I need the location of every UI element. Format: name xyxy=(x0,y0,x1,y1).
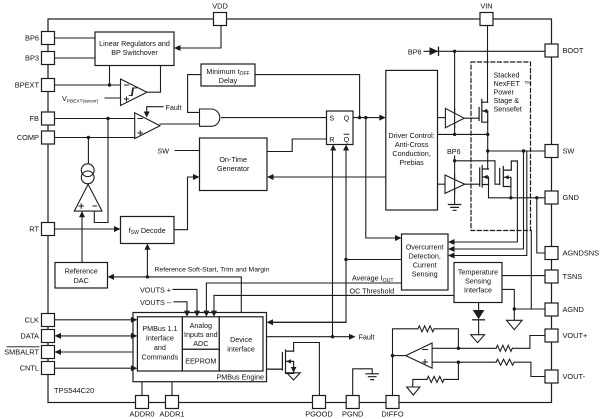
wire average iout line xyxy=(206,283,401,317)
amp input markers xyxy=(79,85,428,365)
overline SMBALRT xyxy=(7,346,39,348)
wire fault vertical to latch xyxy=(332,148,334,337)
chip border TPS544C20 xyxy=(48,19,552,403)
wire feedback resistor path xyxy=(393,329,459,356)
arrow sense2 into overcurrent xyxy=(448,246,455,252)
wire qbar branch to overcurrent left xyxy=(346,259,402,261)
svg-text:Interface: Interface xyxy=(464,286,492,295)
svg-text:Q: Q xyxy=(344,135,350,144)
wire COMP tap down to current source xyxy=(87,138,89,164)
svg-text:BP3: BP3 xyxy=(25,54,39,63)
wire fsw decode to on-time generator xyxy=(174,177,194,230)
marker plus gm amp xyxy=(79,204,84,209)
svg-text:SMBALRT: SMBALRT xyxy=(4,348,39,357)
svg-text:TSNS: TSNS xyxy=(563,272,583,281)
wire addr1 stub xyxy=(171,382,173,396)
svg-text:BP6: BP6 xyxy=(408,47,422,56)
svg-text:PMBus Engine: PMBus Engine xyxy=(216,373,264,382)
svg-text:R: R xyxy=(329,135,334,144)
svg-text:Interface: Interface xyxy=(146,334,174,343)
block EEPROM xyxy=(182,349,219,371)
pin SMBALRT xyxy=(42,346,55,359)
svg-text:PGND: PGND xyxy=(342,410,363,419)
arrow into latch Qbar bottom xyxy=(343,145,349,151)
wire driver swnode line xyxy=(438,133,488,135)
svg-text:Fault: Fault xyxy=(359,333,375,342)
svg-text:VIN: VIN xyxy=(480,2,492,11)
pin VOUT+ xyxy=(545,329,558,342)
wire qbar vertical latch to pmbus elbow xyxy=(271,148,346,323)
marker minus gm amp xyxy=(93,205,97,207)
wire addr0 stub xyxy=(141,382,143,396)
wire fault label to error amp xyxy=(147,107,163,112)
gate AND xyxy=(200,109,220,126)
block On-Time Generator xyxy=(200,138,268,191)
pin COMP xyxy=(42,131,55,144)
svg-text:VOUT+: VOUT+ xyxy=(563,331,588,340)
svg-text:TPS544C20: TPS544C20 xyxy=(54,386,94,395)
pin AGND xyxy=(545,303,558,316)
wire gain resistor path to ground xyxy=(413,362,459,387)
svg-text:ADDR1: ADDR1 xyxy=(159,410,184,419)
block fsw Decode xyxy=(121,217,175,244)
wire diffo pin to opamp out xyxy=(392,356,394,396)
mosfet high-side nexfet xyxy=(464,99,488,122)
svg-text:BP Switchover: BP Switchover xyxy=(111,48,158,57)
svg-text:Analog: Analog xyxy=(190,321,212,330)
arrow into reference dac xyxy=(108,274,115,280)
svg-text:VOUT-: VOUT- xyxy=(563,372,586,381)
wire temp diode to ground xyxy=(478,320,480,335)
svg-text:ADC: ADC xyxy=(193,339,208,348)
op-amp error amplifier xyxy=(135,113,160,139)
pin GND xyxy=(545,191,558,204)
wire Vpbext label to comparator xyxy=(105,97,121,99)
wire vout+ line after resistor xyxy=(513,336,546,349)
svg-text:COMP: COMP xyxy=(17,133,39,142)
svg-text:CNTL: CNTL xyxy=(20,364,39,373)
arrow Q into driver control xyxy=(379,115,386,121)
resistor R vout+ xyxy=(496,345,512,351)
svg-text:Prebias: Prebias xyxy=(399,158,424,167)
wire BP6 diode line to BOOT xyxy=(424,50,545,52)
arrow clk into pmbus xyxy=(131,317,138,323)
wire temp box elbow to agnd line xyxy=(502,289,514,309)
pin DIFFO xyxy=(386,396,399,409)
block Linear Regulators and BP Switchover xyxy=(95,32,174,66)
svg-text:and: and xyxy=(154,343,166,352)
block PMBus Engine outer xyxy=(133,313,267,382)
wire BP3 pin to linreg xyxy=(55,57,96,59)
svg-text:PMBus 1.1: PMBus 1.1 xyxy=(142,324,177,333)
wire high-side source down to SW node xyxy=(487,122,489,169)
arrow vouts minus into adc xyxy=(184,311,190,317)
arrow vouts plus into adc xyxy=(194,311,200,317)
svg-text:Device: Device xyxy=(230,335,252,344)
wire fault out line from pmbus xyxy=(267,336,350,338)
wire fsw decode bottom to reference line xyxy=(146,248,148,277)
svg-text:VPBEXT(swovr): VPBEXT(swovr) xyxy=(62,94,99,104)
svg-text:AGND: AGND xyxy=(563,305,584,314)
block Minimum tOFF Delay xyxy=(201,64,255,86)
arrow into latch R bottom xyxy=(330,145,336,151)
wire agndsns from gnd line xyxy=(537,198,545,253)
wire vouts plus line xyxy=(173,289,197,313)
current source symbol xyxy=(81,164,94,184)
wire cntl line xyxy=(55,367,135,369)
svg-text:DATA: DATA xyxy=(20,331,39,340)
ground bar-style below BP6 low stem xyxy=(448,205,460,211)
ground triangle below pgood fet xyxy=(287,373,301,380)
svg-text:BP6: BP6 xyxy=(447,147,461,156)
diode temperature sense xyxy=(473,310,485,320)
dashed box Stacked NexFET power stage xyxy=(471,62,531,231)
wire sense line 3 to overcurrent xyxy=(452,152,527,256)
svg-text:Anti-Cross: Anti-Cross xyxy=(395,140,429,149)
pin BOOT xyxy=(545,44,558,57)
svg-text:Commands: Commands xyxy=(142,353,179,362)
pin DATA xyxy=(42,330,55,343)
arrow fsw elbow into on-time generator xyxy=(193,174,200,180)
wire driver control feedback to on-time xyxy=(271,176,386,178)
wire bp6 to sensefet gate xyxy=(455,161,500,184)
buffer low-side driver xyxy=(445,175,465,193)
pin SW xyxy=(545,145,558,158)
wire on-time out to latch R xyxy=(267,139,327,152)
wire oc threshold line xyxy=(214,295,455,316)
wire FB vertical down to gm amp minus xyxy=(94,119,108,223)
svg-text:ADDR0: ADDR0 xyxy=(129,410,154,419)
block Device interface xyxy=(219,317,263,371)
svg-text:VDD: VDD xyxy=(212,2,228,11)
svg-text:Reference Soft-Start, Trim and: Reference Soft-Start, Trim and Margin xyxy=(155,267,270,274)
arrow fault into error amp xyxy=(144,112,150,118)
pin TSNS xyxy=(545,270,558,283)
svg-text:Linear Regulators and: Linear Regulators and xyxy=(99,39,170,48)
wire RT pin to fsw decode xyxy=(55,228,118,230)
svg-text:Delay: Delay xyxy=(219,76,238,85)
block Temperature Sensing Interface xyxy=(454,263,502,303)
wires group xyxy=(55,26,546,396)
resistor R gain to ground xyxy=(427,376,444,382)
pin RT xyxy=(42,223,55,236)
svg-text:BPEXT: BPEXT xyxy=(15,81,40,90)
svg-text:AGNDSNS: AGNDSNS xyxy=(563,249,600,258)
svg-text:Current: Current xyxy=(413,261,437,270)
wire AND output to latch S xyxy=(222,117,327,119)
ground triangle at opamp resistor xyxy=(407,387,420,395)
arrow smbalrt into pin xyxy=(55,349,62,355)
latch SR xyxy=(327,111,354,145)
svg-text:BOOT: BOOT xyxy=(563,46,584,55)
arrowheads xyxy=(55,45,455,373)
arrow cntl into pmbus xyxy=(131,365,138,371)
arrow RT into fsw decode xyxy=(114,226,121,232)
wire min toff delay output elbow to AND xyxy=(188,75,201,113)
resistor R vout- xyxy=(496,359,514,365)
wire agnd line to AGND pin xyxy=(514,308,545,310)
svg-text:Fault: Fault xyxy=(166,103,182,112)
comparator BPEXT swovr xyxy=(121,79,148,106)
wire BP6 pin to linreg xyxy=(55,37,96,39)
wire opamp output to feedback node xyxy=(393,355,406,357)
pin ADDR0 xyxy=(136,396,149,409)
arrow pgood fet source into ground xyxy=(291,367,297,373)
svg-text:Inputs and: Inputs and xyxy=(184,330,218,339)
pin PGND xyxy=(346,396,359,409)
wire vouts minus line xyxy=(174,302,187,313)
wire temp box to TSNS pin xyxy=(502,275,545,277)
wire low-side buffer input xyxy=(438,183,446,185)
arrow data into pin xyxy=(55,333,62,339)
wire min toff input from Q line xyxy=(255,75,360,118)
wire reference soft-start line xyxy=(112,277,242,313)
svg-text:DIFFO: DIFFO xyxy=(381,410,403,419)
svg-text:VOUTS +: VOUTS + xyxy=(140,286,171,295)
wire reference dac up to gm amp plus xyxy=(81,214,83,263)
arrow into linreg from vdd xyxy=(174,45,181,51)
svg-text:Detection,: Detection, xyxy=(409,252,441,261)
block Reference DAC xyxy=(55,263,108,289)
wire low-side fet1 source to gnd line xyxy=(488,185,490,198)
wire pgood fet gate from pmbus xyxy=(267,368,283,370)
pin ADDR1 xyxy=(166,396,179,409)
svg-text:VOUTS --: VOUTS -- xyxy=(140,298,172,307)
arrow sense1 into overcurrent xyxy=(448,239,455,245)
wire average branch to pmbus arrow xyxy=(271,321,346,323)
svg-text:interface: interface xyxy=(227,345,255,354)
svg-text:SW: SW xyxy=(157,147,169,156)
pin BP3 xyxy=(42,52,55,65)
wire SW label to on-time generator xyxy=(175,150,200,152)
pin VDD xyxy=(214,13,227,26)
svg-text:DAC: DAC xyxy=(74,276,89,285)
block Overcurrent Detection Current Sensing xyxy=(402,234,449,290)
wire comparator output up to linreg xyxy=(147,66,161,93)
svg-text:PGOOD: PGOOD xyxy=(305,410,333,419)
overline latch Qbar xyxy=(344,133,349,135)
pin BPEXT xyxy=(42,79,55,92)
wire linreg bottom to BPEXT tap xyxy=(109,66,111,86)
svg-text:OC Threshold: OC Threshold xyxy=(350,286,395,295)
wire high-side buffer input xyxy=(438,117,446,119)
wire smbalrt line xyxy=(59,351,138,353)
wire pgood fet drain to pgood pin xyxy=(294,343,320,396)
wire BPEXT pin to comparator xyxy=(55,84,121,86)
arrow into on-time generator right xyxy=(267,174,274,180)
pin AGNDSNS xyxy=(545,247,558,260)
boxes xyxy=(55,32,502,382)
mosfet sensefet fet2 xyxy=(500,161,518,187)
wire opamp minus input line xyxy=(432,347,496,349)
wire Q branch down to overcurrent xyxy=(366,118,398,238)
wire VIN down to high-side drain xyxy=(487,26,489,103)
arrow fault label xyxy=(349,334,356,340)
svg-text:Driver Control:: Driver Control: xyxy=(388,131,434,140)
wire VDD to linear regulator elbow xyxy=(178,26,221,49)
marker plus comparator xyxy=(125,97,129,101)
svg-text:Average IOUT: Average IOUT xyxy=(352,274,394,284)
wire bp6 low label stem to ground xyxy=(454,156,456,205)
svg-text:Reference: Reference xyxy=(65,267,98,276)
wire agnd ground stem xyxy=(513,309,515,320)
pin CNTL xyxy=(42,362,55,375)
marker plus error amp xyxy=(138,131,143,136)
svg-text:TM: TM xyxy=(525,80,532,85)
wire BP6 vertical drop to driver line xyxy=(454,51,456,134)
svg-text:Sensefet: Sensefet xyxy=(494,105,522,114)
op-amp diff amplifier DIFFO xyxy=(406,343,432,368)
marker minus diff amp xyxy=(423,349,428,351)
pin PGOOD xyxy=(313,396,326,409)
svg-text:Q: Q xyxy=(344,113,350,122)
buffer high-side driver xyxy=(445,108,464,127)
wire vout- line after resistor xyxy=(515,362,545,376)
wire data line xyxy=(59,335,135,337)
resistor R feedback xyxy=(418,326,434,332)
svg-text:SW: SW xyxy=(563,147,575,156)
wire error amp out to AND gate xyxy=(160,123,200,125)
svg-text:On-Time: On-Time xyxy=(219,155,247,164)
wire sensefet source to gnd xyxy=(510,187,512,198)
arrow average into adc xyxy=(203,311,209,317)
ground triangle at agnd node xyxy=(507,320,523,329)
arrow average into pmbus right xyxy=(267,319,274,325)
svg-text:Overcurrent: Overcurrent xyxy=(406,243,444,252)
arrow into fsw decode bottom xyxy=(144,244,150,250)
pin VOUT- xyxy=(545,370,558,383)
svg-text:RT: RT xyxy=(29,225,39,234)
pin FB xyxy=(42,112,55,125)
svg-text:Temperature: Temperature xyxy=(458,268,498,277)
wire opamp plus input line xyxy=(432,361,496,363)
hysteresis glyph in comparator xyxy=(129,88,137,96)
arrow data into pmbus xyxy=(131,333,138,339)
ground triangle below temp diode xyxy=(471,335,485,343)
wire temp diode stem xyxy=(478,303,480,311)
block Analog Inputs and ADC xyxy=(182,317,219,350)
svg-text:Sensing: Sensing xyxy=(465,277,491,286)
arrow into gm amp plus xyxy=(79,211,85,217)
marker minus comparator xyxy=(125,84,129,86)
svg-text:GND: GND xyxy=(563,193,579,202)
wire clk line xyxy=(55,319,135,321)
svg-text:Conduction,: Conduction, xyxy=(392,149,430,158)
wire Q output to driver control xyxy=(353,117,382,119)
marker plus diff amp xyxy=(423,360,428,365)
svg-text:CLK: CLK xyxy=(25,315,39,324)
pin VIN xyxy=(480,13,493,26)
mosfet low-side fet1 xyxy=(465,166,489,188)
pin CLK xyxy=(42,314,55,327)
wire pgnd pin to ground xyxy=(353,369,373,396)
block Driver Control xyxy=(386,70,438,210)
wire gnd line to GND pin xyxy=(489,197,546,199)
diode BP6 to BOOT xyxy=(430,47,439,55)
wire sense line 2 from SW to overcurrent xyxy=(452,151,524,249)
wire BP6 vertical visible through buffers xyxy=(454,109,456,194)
arrow oc threshold into adc xyxy=(211,311,217,317)
wire power stage block to agnd node xyxy=(530,231,532,310)
wire sense line 1 to overcurrent xyxy=(452,161,518,242)
svg-text:BP6: BP6 xyxy=(25,34,39,43)
svg-text:Generator: Generator xyxy=(217,164,250,173)
ground bar-style at PGND xyxy=(366,374,378,380)
svg-text:Sensing: Sensing xyxy=(412,270,438,279)
wire COMP pin to error amp xyxy=(55,137,135,139)
op-amp gm amplifier xyxy=(74,184,102,211)
svg-text:EEPROM: EEPROM xyxy=(185,357,216,366)
block PMBus 1.1 Interface and Commands xyxy=(137,317,182,371)
arrow q into overcurrent left xyxy=(395,235,402,241)
mosfet pgood open drain xyxy=(267,350,294,373)
wire FB pin to error amp xyxy=(55,118,135,120)
arrow sense3 into overcurrent xyxy=(448,253,455,259)
wire SW node line to SW pin xyxy=(488,150,545,152)
svg-text:FB: FB xyxy=(30,114,40,123)
pin BP6 xyxy=(42,32,55,45)
marker minus error amp xyxy=(138,118,143,120)
svg-text:S: S xyxy=(329,113,334,122)
